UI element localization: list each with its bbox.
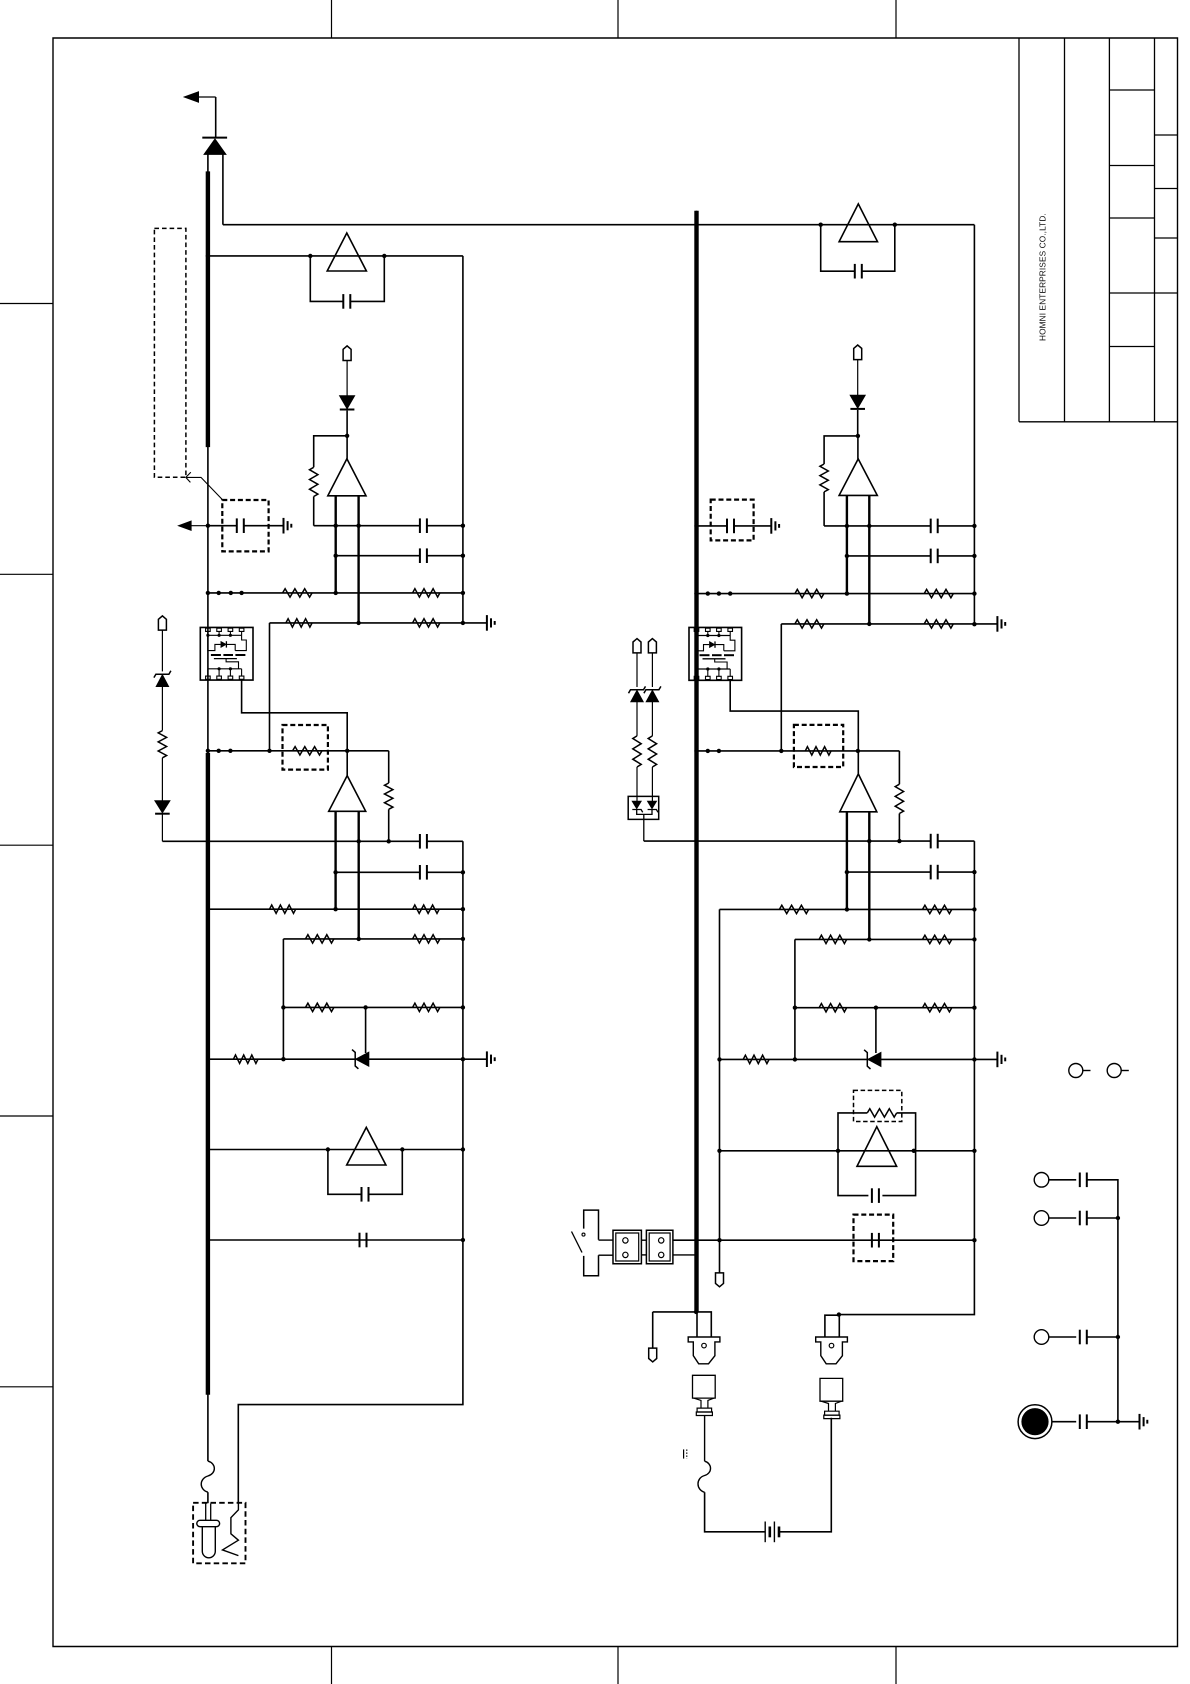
junction bus U1 bbox=[206, 254, 210, 258]
junction pinR4 593 bbox=[728, 591, 732, 595]
dashed block outline bbox=[154, 228, 186, 477]
junction railR 593 bbox=[972, 591, 976, 595]
capacitor C5 bbox=[419, 834, 421, 849]
wire row 1059 bbox=[208, 1058, 487, 1060]
wire row 555 bbox=[336, 555, 420, 557]
test pin P5 bbox=[649, 1348, 657, 1362]
capacitor C18 bbox=[1079, 1211, 1081, 1226]
bus flex squiggle bbox=[201, 1461, 214, 1492]
callout pointer bbox=[186, 472, 191, 482]
op-amp U1 bbox=[327, 233, 366, 271]
capacitor C10 bbox=[930, 519, 932, 534]
resistor R17 bbox=[233, 1055, 258, 1063]
battery B1 bbox=[764, 1522, 766, 1543]
top fold tick 2 bbox=[617, 0, 619, 38]
junction railR 1240 bbox=[972, 1238, 976, 1242]
ground rowR 525 bbox=[770, 518, 772, 534]
title block bbox=[1019, 38, 1178, 422]
bus wire left channel bbox=[207, 154, 209, 1461]
junction pin1 750 bbox=[206, 749, 210, 753]
junction IO 1337 bbox=[1116, 1335, 1120, 1339]
indicator circle B bbox=[1107, 1064, 1121, 1078]
junction pinR2 750 bbox=[706, 749, 710, 753]
junction bus 525 bbox=[206, 524, 210, 528]
resistor R11 bbox=[270, 905, 296, 913]
junction railR 909 bbox=[972, 907, 976, 911]
wire rowR 872 bbox=[847, 871, 931, 873]
resistor R13 bbox=[306, 935, 334, 943]
capacitor C4 bbox=[236, 518, 238, 533]
op-amp U8 bbox=[857, 436, 859, 459]
resistor R14 bbox=[413, 935, 440, 943]
wire D2 to R3 bbox=[314, 436, 347, 468]
junction IO 1421 bbox=[1116, 1420, 1120, 1424]
IO wire 1 bbox=[1049, 1179, 1076, 1181]
resistor R4 bbox=[283, 589, 313, 597]
junction pin3 592 bbox=[229, 591, 233, 595]
junction U7 left bbox=[819, 223, 823, 227]
IO circle 1 bbox=[1034, 1173, 1049, 1188]
junction busR 525 bbox=[694, 524, 698, 528]
feedback rail upper left-ch bbox=[462, 256, 464, 623]
zener diode Z3 bbox=[629, 686, 646, 693]
diode D3 bbox=[155, 801, 170, 813]
capacitor C7 loop bbox=[328, 1150, 362, 1195]
junction pinR3 750 bbox=[717, 749, 721, 753]
indicator circle A bbox=[1069, 1064, 1083, 1078]
resistor R25 bbox=[633, 736, 641, 767]
RCA jack J1 bbox=[193, 1503, 245, 1564]
zener diode Z5 bbox=[868, 1053, 881, 1067]
junction U1 left bbox=[308, 254, 312, 258]
power output arrow bbox=[184, 92, 198, 102]
junction D4 bbox=[856, 434, 860, 438]
feedback box U10 bbox=[838, 1113, 916, 1196]
lamp L1 wiring bbox=[653, 1312, 712, 1337]
capacitor C3 bbox=[419, 548, 421, 563]
U2 right rail bbox=[357, 496, 359, 623]
wire row 1149 bbox=[208, 1149, 463, 1151]
IO wire 3 bbox=[1049, 1336, 1076, 1338]
capacitor C19 bbox=[1079, 1330, 1081, 1345]
U5 left rail bbox=[334, 811, 336, 909]
resistor R3 bbox=[310, 467, 318, 496]
junction 358/622 bbox=[356, 621, 360, 625]
zener diode Z1 bbox=[154, 671, 171, 678]
bus thick segment lower bbox=[206, 753, 210, 1395]
junction rail 872 bbox=[461, 870, 465, 874]
junction 335/909 bbox=[333, 907, 337, 911]
left fold tick 1 bbox=[0, 303, 53, 305]
signal arrow out bbox=[179, 521, 192, 530]
resistor R28 bbox=[923, 905, 952, 913]
lamp L1 lead bbox=[704, 1416, 706, 1462]
lamp L1 bottom wire bbox=[705, 1492, 766, 1532]
wire rowR 909 bbox=[720, 908, 975, 910]
capacitor C17 bbox=[1079, 1173, 1081, 1188]
wire rowR 841 bbox=[644, 840, 931, 842]
wire row 938 bbox=[283, 938, 463, 940]
junction 719/1240 bbox=[717, 1238, 721, 1242]
junction 875/1007 bbox=[874, 1006, 878, 1010]
wire D4 to R18 bbox=[824, 436, 858, 464]
junction railR 1150 bbox=[972, 1149, 976, 1153]
junction rail 1240 bbox=[461, 1238, 465, 1242]
U9 left rail bbox=[846, 812, 848, 910]
junction 846/872 bbox=[845, 870, 849, 874]
bottom fold tick 1 bbox=[331, 1647, 333, 1684]
junction 846/555 bbox=[845, 554, 849, 558]
pin4 route wire bbox=[242, 679, 348, 751]
connector block K2 bbox=[646, 1230, 673, 1263]
junction 335/872 bbox=[333, 870, 337, 874]
resistor R10 bbox=[158, 731, 166, 758]
wire C4 to ground bbox=[244, 525, 284, 527]
junction pinR2 593 bbox=[706, 591, 710, 595]
junction railR 1059 bbox=[972, 1057, 976, 1061]
bus end junction bbox=[694, 1310, 698, 1314]
wire rowR 1059 bbox=[720, 1058, 998, 1060]
IO circle 2 bbox=[1034, 1211, 1049, 1226]
dashed box around C4 bbox=[222, 500, 268, 551]
op-amp U9 bbox=[857, 751, 859, 774]
connector block K1 bbox=[613, 1230, 641, 1263]
junction 846/909 bbox=[845, 907, 849, 911]
wire row 909 bbox=[208, 908, 463, 910]
switch wire upper bbox=[599, 1239, 614, 1241]
junction 869/841 bbox=[867, 839, 871, 843]
capacitor C13 bbox=[930, 834, 932, 849]
power diode D1 bbox=[202, 137, 227, 139]
capacitor C12 bbox=[726, 519, 728, 534]
junction pinR1 593 bbox=[694, 591, 698, 595]
op-amp U5 bbox=[346, 751, 348, 776]
resistor R7 bbox=[413, 619, 440, 627]
wire row 592 bbox=[208, 592, 463, 594]
junction rail 622 bbox=[461, 621, 465, 625]
junction pin2 592 bbox=[217, 591, 221, 595]
capacitor C16 bbox=[871, 1233, 873, 1248]
junction railR 624 bbox=[972, 622, 976, 626]
resistor R27 bbox=[779, 905, 808, 913]
U5 right rail bbox=[358, 811, 360, 939]
junction 358/841 bbox=[357, 839, 361, 843]
capacitor C8 bbox=[359, 1233, 361, 1248]
junction U6 right bbox=[400, 1147, 404, 1151]
wire rowR 555 bbox=[847, 555, 931, 557]
resistor R18 bbox=[820, 464, 828, 492]
op-amp U6 bbox=[347, 1127, 386, 1165]
dashed box around R8 bbox=[283, 725, 328, 770]
dual diode pack D5 bbox=[628, 796, 659, 841]
resistor R30 bbox=[923, 935, 952, 943]
pin4R route wire bbox=[730, 680, 858, 751]
junction 358/525 bbox=[356, 524, 360, 528]
resistor R32 bbox=[923, 1004, 952, 1012]
junction pin4 592 bbox=[239, 591, 243, 595]
test point TP1 bbox=[343, 346, 351, 361]
junction rail 555 bbox=[461, 554, 465, 558]
dashed box around R34 bbox=[854, 1090, 902, 1121]
wire rowR 939 bbox=[795, 938, 975, 940]
feedback rail upper right-ch bbox=[973, 225, 975, 625]
wire rowR 525 mid bbox=[824, 525, 931, 527]
resistor R22 bbox=[924, 620, 953, 628]
dashed box around C12 bbox=[711, 500, 754, 541]
zener diode Z2 bbox=[356, 1052, 369, 1066]
switch wire lower bbox=[599, 1254, 614, 1256]
junction railR 872 bbox=[972, 870, 976, 874]
top fold tick 3 bbox=[895, 0, 897, 38]
junction 365/1007 bbox=[363, 1005, 367, 1009]
resistor R12 bbox=[413, 905, 440, 913]
diode D4 bbox=[850, 395, 865, 408]
wire C12 to ground bbox=[734, 525, 771, 527]
junction 794/1007 bbox=[793, 1006, 797, 1010]
IO circle 3 bbox=[1034, 1330, 1049, 1345]
junction 794/1059 bbox=[793, 1057, 797, 1061]
junction box right bbox=[912, 1149, 916, 1153]
power jack circle bbox=[1018, 1405, 1052, 1439]
junction lamp L2 bbox=[837, 1312, 841, 1316]
resistor R6 bbox=[286, 619, 312, 627]
junction rail 909 bbox=[461, 907, 465, 911]
dashed box around C16 bbox=[854, 1215, 894, 1262]
capacitor C1 loop bbox=[310, 256, 343, 302]
junction 335/525 bbox=[334, 524, 338, 528]
wire row 622 bbox=[270, 622, 487, 624]
junction rail 1007 bbox=[461, 1005, 465, 1009]
junction 869/939 bbox=[867, 937, 871, 941]
U1 input wire bbox=[208, 255, 463, 257]
junction 269/750 bbox=[267, 749, 271, 753]
capacitor C6 bbox=[419, 865, 421, 880]
wire rowR 1007 bbox=[795, 1007, 975, 1009]
B+ rail wire bbox=[223, 224, 975, 226]
junction 335/592 bbox=[334, 591, 338, 595]
junction pin1 592 bbox=[206, 591, 210, 595]
resistor R29 bbox=[819, 935, 847, 943]
capacitor C14 bbox=[930, 865, 932, 880]
power switch S1 bbox=[572, 1210, 599, 1276]
capacitor C2 bbox=[419, 518, 421, 533]
op-amp U10 bbox=[857, 1127, 897, 1167]
junction pin2 750 bbox=[217, 749, 221, 753]
bottom fold tick 2 bbox=[617, 1647, 619, 1684]
ground row 1059 bbox=[486, 1051, 488, 1067]
resistor R21 bbox=[795, 620, 824, 628]
zener diode Z4 bbox=[644, 686, 661, 693]
junction rail 938 bbox=[461, 937, 465, 941]
junction 869/525 bbox=[867, 524, 871, 528]
wire row 841 bbox=[162, 840, 420, 842]
junction 347/750 bbox=[345, 749, 349, 753]
feedback rail lower right-ch bbox=[839, 841, 975, 1315]
bus thick segment right bbox=[694, 211, 698, 1312]
wire rowR 593 bbox=[697, 593, 975, 595]
bus thick segment upper bbox=[206, 171, 210, 447]
junction U7 right bbox=[893, 223, 897, 227]
junction 719/1059 bbox=[717, 1057, 721, 1061]
IO wire 4 bbox=[1052, 1421, 1076, 1423]
test point TP2 bbox=[854, 345, 862, 360]
resistor R34 bbox=[867, 1109, 896, 1117]
IO wire 2 bbox=[1049, 1217, 1076, 1219]
wire row 750 bbox=[208, 750, 389, 752]
junction 283/1007 bbox=[281, 1005, 285, 1009]
junction D2 bbox=[345, 434, 349, 438]
resistor R5 bbox=[413, 589, 440, 597]
left fold tick 5 bbox=[0, 1386, 53, 1388]
junction 899/841 bbox=[897, 839, 901, 843]
U9 right rail bbox=[868, 812, 870, 940]
bus wire right channel bbox=[696, 211, 698, 1312]
junction 846/525 bbox=[845, 524, 849, 528]
junction rail 525 bbox=[461, 524, 465, 528]
IC U4 bbox=[689, 627, 742, 680]
resistor R19 bbox=[795, 589, 824, 597]
lamp socket L2 bbox=[816, 1337, 848, 1364]
left fold tick 3 bbox=[0, 844, 53, 846]
junction 358/938 bbox=[357, 937, 361, 941]
shield mark bbox=[683, 1449, 685, 1458]
wire row 1007 bbox=[283, 1006, 463, 1008]
ground IO bbox=[1139, 1414, 1141, 1430]
junction box left bbox=[836, 1149, 840, 1153]
resistor R24 bbox=[898, 751, 900, 784]
IC U3 bbox=[200, 627, 253, 680]
connector pin P2 bbox=[633, 639, 641, 653]
junction U1 right bbox=[382, 254, 386, 258]
U2 left rail bbox=[335, 496, 337, 593]
junction IO 1218 bbox=[1116, 1216, 1120, 1220]
bottom fold tick 3 bbox=[895, 1647, 897, 1684]
left fold tick 2 bbox=[0, 573, 53, 575]
resistor R31 bbox=[819, 1004, 847, 1012]
junction rail 1149 bbox=[461, 1147, 465, 1151]
resistor R15 bbox=[306, 1003, 334, 1011]
capacitor C11 bbox=[930, 549, 932, 564]
ground rowR 1059 bbox=[996, 1052, 998, 1068]
wire rowR 750 bbox=[697, 750, 900, 752]
resistor R8 bbox=[293, 747, 322, 755]
junction 846/593 bbox=[845, 591, 849, 595]
junction 283/1059 bbox=[281, 1057, 285, 1061]
junction 858/750 bbox=[856, 749, 860, 753]
junction 781/750 bbox=[779, 749, 783, 753]
ground row 622 bbox=[486, 615, 488, 631]
battery to lamp L2 wire bbox=[779, 1418, 831, 1532]
junction 388/841 bbox=[387, 839, 391, 843]
capacitor C20 bbox=[1079, 1414, 1081, 1429]
IO rail bbox=[1087, 1180, 1118, 1422]
U8 left rail bbox=[846, 495, 848, 593]
top fold tick 1 bbox=[331, 0, 333, 38]
junction rail 1059 bbox=[461, 1057, 465, 1061]
svg-text:HOMNI ENTERPRISES CO.,LTD.: HOMNI ENTERPRISES CO.,LTD. bbox=[1038, 213, 1048, 341]
wire bus to C4 bbox=[208, 525, 237, 527]
resistor R20 bbox=[924, 589, 953, 597]
junction 869/623 bbox=[867, 622, 871, 626]
U8 right rail bbox=[868, 495, 870, 624]
resistor R33 bbox=[743, 1055, 769, 1063]
junction 719/1150 bbox=[717, 1149, 721, 1153]
wire rowR 1240 bbox=[673, 1239, 975, 1241]
junction 335/555 bbox=[334, 554, 338, 558]
op-amp U7 bbox=[839, 204, 877, 242]
wire row 872 bbox=[336, 871, 420, 873]
feedback rail lower left-ch bbox=[238, 841, 463, 1503]
diode D2 bbox=[340, 396, 355, 409]
junction rail 592 bbox=[461, 591, 465, 595]
junction railR 555 bbox=[972, 554, 976, 558]
wire row 525 mid bbox=[314, 525, 420, 527]
ground rowR 623 bbox=[996, 616, 998, 632]
junction U6 left bbox=[326, 1147, 330, 1151]
wire rowR 1150 bbox=[720, 1150, 975, 1152]
capacitor C15 bbox=[871, 1188, 873, 1203]
resistor R23 bbox=[805, 747, 831, 755]
junction pin3 750 bbox=[228, 749, 232, 753]
connector pin P3 bbox=[648, 639, 656, 653]
lamp L1 squiggle bbox=[698, 1461, 711, 1492]
dashed box around R23 bbox=[794, 725, 843, 767]
op-amp U2 bbox=[346, 436, 348, 459]
wire row 1240 bbox=[208, 1239, 463, 1241]
junction pinR3 593 bbox=[717, 591, 721, 595]
lamp socket L1 bbox=[688, 1337, 720, 1364]
wire rowR 623 bbox=[781, 623, 997, 625]
wire busR to C12 bbox=[697, 525, 728, 527]
left fold tick 4 bbox=[0, 1115, 53, 1117]
junction pinR1 750 bbox=[694, 749, 698, 753]
connector pin P1 bbox=[158, 616, 166, 630]
junction railR 525 bbox=[972, 524, 976, 528]
junction railR 939 bbox=[972, 937, 976, 941]
test pin P4 bbox=[716, 1273, 724, 1287]
capacitor C9 loop bbox=[821, 225, 855, 272]
lamp L2 wiring bbox=[825, 1315, 839, 1337]
pin rail right-ch bbox=[719, 909, 721, 1273]
resistor R16 bbox=[413, 1003, 440, 1011]
resistor R26 bbox=[648, 736, 656, 767]
ground row 525 bbox=[283, 518, 285, 534]
junction railR 1007 bbox=[972, 1006, 976, 1010]
resistor R9 bbox=[388, 751, 390, 783]
